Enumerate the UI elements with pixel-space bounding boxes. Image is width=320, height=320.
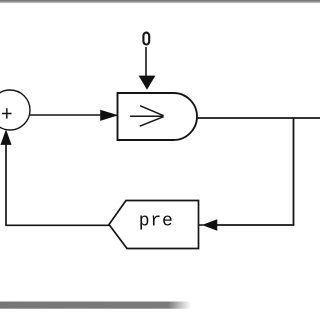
wire: constant 0 into register	[145, 47, 147, 77]
arrow symbol inside register	[130, 106, 164, 127]
wire: register output to right edge	[197, 117, 320, 119]
arrowhead down into register top	[139, 76, 154, 89]
bottom page-edge bar	[0, 302, 191, 309]
arrowhead into register	[101, 111, 117, 120]
svg-text:pre: pre	[139, 212, 174, 232]
wire: feedback branch down right side	[217, 118, 294, 225]
summing junction S1	[0, 90, 30, 130]
pre block	[109, 201, 199, 249]
wire: pre block output to left then up	[6, 144, 109, 225]
top page-edge bar	[0, 0, 320, 3]
wire: summing junction to register	[30, 114, 103, 116]
arrowhead into pre block	[199, 220, 217, 229]
constant 0 label	[143, 33, 149, 45]
arrowhead up into summing junction	[1, 131, 11, 145]
plus sign in summing junction	[2, 108, 12, 118]
register/delay block U1	[118, 93, 198, 140]
